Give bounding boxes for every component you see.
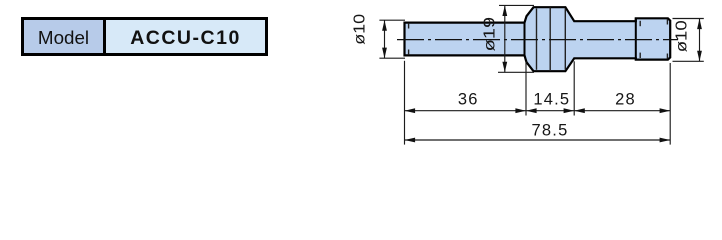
svg-text:ø10: ø10 bbox=[673, 20, 690, 52]
svg-text:ø10: ø10 bbox=[351, 14, 368, 45]
svg-text:ø19: ø19 bbox=[482, 17, 499, 52]
svg-text:28: 28 bbox=[615, 91, 636, 109]
svg-text:14.5: 14.5 bbox=[533, 91, 570, 109]
svg-text:36: 36 bbox=[458, 91, 479, 109]
svg-text:78.5: 78.5 bbox=[532, 122, 569, 140]
